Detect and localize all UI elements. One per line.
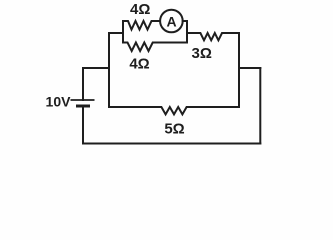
wire: main left vertical (node T down to 5-ohm branch) xyxy=(108,33,110,107)
battery V1 short plate (negative) xyxy=(76,105,90,108)
svg-text:5Ω: 5Ω xyxy=(164,121,184,138)
svg-text:10V: 10V xyxy=(46,94,72,110)
battery V1 long plate (positive) xyxy=(71,99,95,101)
wire: node R branch to outer right edge xyxy=(239,67,260,69)
wire: battery bottom lead xyxy=(82,106,84,144)
svg-text:4Ω: 4Ω xyxy=(130,1,150,18)
wire: right inner vertical (node R) xyxy=(238,33,240,107)
svg-text:A: A xyxy=(167,13,177,29)
wire: parallel box left edge xyxy=(122,21,124,43)
wire: input to parallel box xyxy=(109,32,123,34)
wire: ammeter to box right edge xyxy=(183,20,187,22)
ammeter A1 xyxy=(160,10,183,33)
wire: outer bottom return xyxy=(83,143,260,145)
wire: parallel box right edge xyxy=(186,21,188,43)
resistor R2 4-ohm bottom branch xyxy=(123,43,187,52)
resistor R3 3-ohm xyxy=(187,33,239,40)
wire: outer right vertical xyxy=(259,68,261,144)
svg-text:3Ω: 3Ω xyxy=(192,45,212,62)
resistor R4 5-ohm bottom branch xyxy=(109,107,239,114)
resistor R1 4-ohm top branch xyxy=(123,21,160,30)
wire: battery top to node T xyxy=(83,68,109,100)
svg-text:4Ω: 4Ω xyxy=(129,56,149,73)
